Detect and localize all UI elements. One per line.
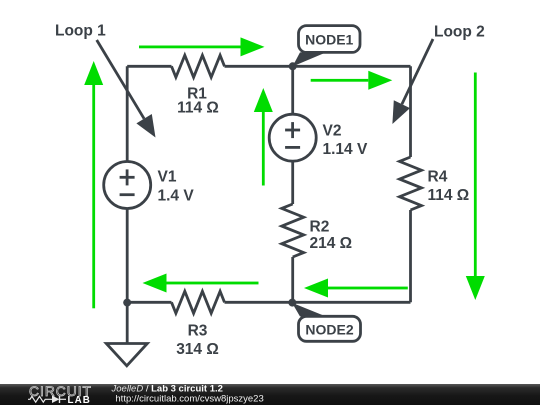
value label V1 1.4 V [158,169,195,205]
value label R4 114 Ω [428,169,470,205]
value label V2 1.14 V [323,123,368,159]
wire middle vertical (NODE1 to V2 top) [291,66,294,114]
resistor R4 [400,157,422,210]
svg-text:R2: R2 [310,219,330,236]
wire left vertical (below V1 to bottom-left corner) [126,209,129,303]
svg-text:V1: V1 [158,169,177,186]
svg-text:R3: R3 [188,323,208,340]
svg-text:R4: R4 [428,169,448,186]
svg-text:1.4 V: 1.4 V [158,188,195,205]
current arrow loop1 bottom (left) [143,274,259,293]
svg-text:V2: V2 [323,123,342,140]
wire right vertical (top corner to R4) [409,66,412,157]
svg-text:Loop 2: Loop 2 [434,24,485,41]
voltage source V1 [104,162,151,209]
junction node NODE1 dot [289,62,297,70]
loop label Loop 2 [392,24,484,125]
svg-text:114 Ω: 114 Ω [428,187,470,204]
svg-text:NODE1: NODE1 [305,31,353,47]
value label R2 214 Ω [310,219,353,253]
svg-text:LAB: LAB [68,395,91,405]
resistor R3 [172,291,225,313]
wire middle vertical (R2 bottom to NODE2) [291,257,294,302]
junction node NODE2 dot [288,299,296,307]
footer bar [0,384,540,405]
current arrow loop2 top (right) [311,71,393,90]
value label R1 114 Ω [177,86,219,117]
wire bottom (left corner to R3) [127,301,171,304]
ground [106,302,147,366]
wire bottom (R3 to NODE2 to bottom-right corner) [225,301,411,304]
resistor R2 [282,204,304,257]
current arrow loop2 bottom (left) [304,279,408,298]
wire left vertical (top segment above V1) [126,66,129,161]
wire right vertical (R4 to bottom-right corner) [409,210,412,302]
loop label Loop 1 [55,23,156,138]
footer logo CIRCUIT LAB [28,384,92,405]
svg-text:http://circuitlab.com/cvsw8jps: http://circuitlab.com/cvsw8jpszye23 [115,394,263,405]
wire top from node A to node NODE1 and right corner [127,65,410,68]
svg-text:Loop 1: Loop 1 [55,23,106,40]
voltage source V2 [269,114,316,161]
current arrow loop1 top (right) [139,37,265,56]
node NODE2 callout [292,303,361,342]
junction node bottom-left dot [123,299,131,307]
current arrow middle branch (up) [254,88,273,186]
svg-text:1.14 V: 1.14 V [323,141,368,158]
svg-text:314 Ω: 314 Ω [176,341,219,358]
resistor R1 [172,55,225,77]
current arrow loop2 right (down) [466,73,485,301]
svg-text:114 Ω: 114 Ω [177,100,219,117]
svg-text:214 Ω: 214 Ω [310,235,353,252]
current arrow loop1 left (up) [84,61,103,308]
value label R3 314 Ω [176,323,219,359]
svg-text:NODE2: NODE2 [305,322,353,338]
footer credit text [111,383,264,404]
node NODE1 callout [293,26,361,67]
wire middle vertical (V2 bottom to R2 top) [291,161,294,204]
